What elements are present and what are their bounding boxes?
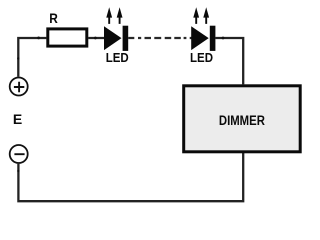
svg-text:LED: LED: [190, 50, 213, 65]
svg-text:E: E: [13, 111, 22, 127]
svg-text:LED: LED: [106, 50, 129, 65]
svg-text:R: R: [49, 10, 58, 26]
svg-text:DIMMER: DIMMER: [219, 113, 265, 128]
